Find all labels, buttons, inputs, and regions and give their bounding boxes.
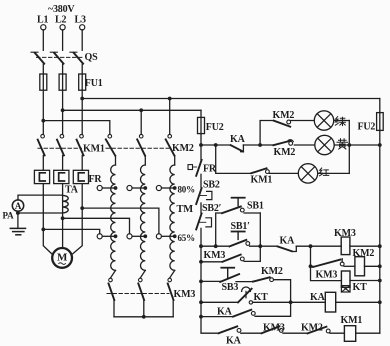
contactor contact KM2 NO green branch (274, 120, 315, 127)
pushbutton SB2 NC contact (196, 188, 212, 213)
label 80% (178, 184, 196, 194)
label KM2 row C (261, 266, 283, 277)
terminal circle L3 (80, 25, 85, 30)
svg-text:~380V: ~380V (48, 4, 75, 15)
label SB3 (222, 282, 239, 293)
svg-text:KM2: KM2 (172, 143, 194, 154)
contactor aux contact KM2 NO row C (253, 277, 291, 302)
node rail row A (199, 244, 203, 248)
node rail row D (199, 300, 203, 304)
wire yellow branch from node (260, 144, 273, 146)
wire phase3 to 65% tap of winding 3 (82, 208, 159, 234)
svg-text:A: A (15, 201, 22, 211)
label KA row A (280, 235, 296, 246)
node right rail KT (378, 279, 382, 283)
label SB2' (202, 203, 222, 214)
svg-text:KM2: KM2 (274, 147, 296, 158)
svg-text:FU1: FU1 (85, 78, 103, 89)
svg-text:SB2: SB2 (203, 180, 220, 191)
fuse FU2 left (198, 117, 205, 133)
relay contact KA lamp row (231, 145, 244, 152)
svg-text:FR: FR (89, 174, 103, 185)
svg-text:M: M (57, 252, 68, 264)
node row A SB1 rejoin (258, 244, 262, 248)
wire L1 QS to node (through FU1) (42, 64, 44, 134)
node L2 rail junction (61, 108, 65, 112)
wire yellow lamp to right rail (334, 144, 380, 146)
contactor KM1 main contact pole 3 (77, 134, 84, 170)
pushbutton SB2' NC contact (196, 214, 211, 247)
node right rail KA coil (378, 300, 382, 304)
svg-text:KA: KA (230, 134, 246, 145)
node L3 rail junction (80, 97, 84, 101)
KM1 linkage dashed line (38, 147, 82, 149)
wire motor phase 1 below FR (43, 184, 51, 254)
wire motor phase 2 below FR (62, 184, 64, 248)
ground symbol (10, 228, 25, 234)
disconnect switch QS pole 3 (70, 52, 83, 63)
wire L1 terminal to QS (42, 30, 44, 50)
65% tap terminal winding 2 (127, 234, 147, 239)
label KT contact (254, 292, 269, 303)
label SB2 (203, 180, 220, 191)
disconnect switch QS pole 1 (31, 52, 44, 63)
wire right rail (379, 99, 381, 334)
relay contact KA NO row E self-hold (233, 302, 291, 316)
label KT coil (353, 282, 368, 293)
contactor KM3 star contact pole 2 (138, 278, 144, 317)
svg-text:KA: KA (226, 335, 242, 346)
label FR contact (203, 163, 217, 174)
label KM3 row F (263, 322, 285, 333)
node rail row B (199, 260, 203, 264)
node L1 rail junction (41, 119, 45, 123)
node SB1 branch left (214, 244, 218, 248)
svg-text:L1: L1 (37, 15, 48, 26)
label KM1 coil (341, 315, 363, 326)
coil KT time relay (341, 271, 350, 292)
svg-text:KT: KT (254, 292, 269, 303)
wire row B rail to KM3 contact (201, 261, 223, 263)
wire KM2 pole3 drop (169, 99, 171, 135)
label PA (3, 210, 15, 220)
label KM1 red branch (251, 174, 273, 185)
node phase2 tap junction (61, 216, 65, 220)
wire L3 terminal to QS (81, 30, 83, 50)
label lamp green (Chinese lv) (335, 117, 345, 126)
65% tap terminal winding 1 (97, 234, 117, 239)
80% tap terminal winding 1 (97, 185, 117, 190)
label KM3 NC (316, 269, 338, 280)
KM3 linkage dashed line (107, 293, 169, 295)
wire row A rail to SB1' (201, 245, 230, 247)
node phase1 tap junction (41, 228, 45, 232)
contactor KM2 main contact pole 1 (106, 134, 116, 165)
SB1 actuator (232, 198, 245, 206)
label KM2 green branch (273, 110, 295, 121)
label lamp yellow (Chinese huang) (337, 139, 348, 149)
svg-text:L2: L2 (55, 15, 66, 26)
label FU2 right (358, 122, 376, 133)
relay contact KA row A (278, 246, 297, 251)
wire SB1 branch riser (216, 213, 222, 246)
node KM2 pole3 branch junction (168, 97, 172, 101)
svg-text:KM2: KM2 (273, 110, 295, 121)
label TM (177, 204, 194, 215)
wire KM2 coil to right rail (365, 265, 380, 267)
wire red lamp to lamp bus (318, 172, 350, 174)
wire control rail lower section (201, 246, 219, 333)
node lamp branches (258, 143, 262, 147)
svg-text:KT: KT (353, 282, 368, 293)
disconnect switch QS pole 2 (50, 52, 63, 63)
node right rail lamp row (378, 143, 382, 147)
terminal L2 label (55, 15, 66, 26)
node rail row C (199, 280, 203, 284)
svg-text:KM2: KM2 (353, 248, 375, 259)
svg-text:SB1: SB1 (247, 200, 264, 211)
label KM2 yellow branch (274, 147, 296, 158)
contactor KM3 star contact pole 1 (109, 278, 115, 317)
thermal relay FR heater pole 3 (73, 170, 88, 183)
node right rail KM2 coil (378, 264, 382, 268)
svg-text:L3: L3 (75, 15, 86, 26)
svg-text:SB2′: SB2′ (202, 203, 222, 214)
label KM3 coil (334, 228, 356, 239)
fuse FU1 pole 3 (79, 74, 86, 90)
autotransformer TM winding 3 (170, 165, 175, 278)
node X KM3 NC tap (309, 264, 313, 268)
coil KM3 (341, 237, 350, 255)
contactor KM2 main contact pole 2 (137, 134, 145, 165)
KM2 linkage dashed line (106, 147, 169, 149)
label KM1 main (83, 143, 105, 154)
label KA lamp row (230, 134, 246, 145)
wire L3 QS to node (through FU1) (81, 64, 83, 134)
wire row D rail to KT contact (201, 301, 238, 303)
wire KA to KM3 coil (296, 245, 341, 247)
autotransformer TM winding 1 (111, 165, 116, 278)
thermal relay FR NC contact (188, 160, 202, 188)
label 65% (178, 233, 196, 243)
label FR heaters (89, 174, 103, 185)
wire green branch riser (260, 121, 274, 146)
label KM2 coil (353, 248, 375, 259)
wire KM3 coil to right rail (350, 245, 380, 247)
svg-text:SB1′: SB1′ (231, 221, 251, 232)
contactor aux contact KM3 NO row F (262, 326, 308, 333)
svg-text:KM1: KM1 (251, 174, 273, 185)
relay contact KA NO row F (219, 326, 262, 333)
wire phase2 to 65% tap of winding 2 (63, 218, 130, 234)
label KA row F (226, 335, 242, 346)
wire phase1 to 65% tap of winding 1 (43, 229, 99, 233)
indicator lamp yellow (315, 135, 334, 154)
wire TA secondary top to ammeter (18, 195, 63, 200)
node KM2 pole2 branch junction (139, 108, 143, 112)
fuse FU2 right (377, 113, 384, 131)
label TA (65, 185, 79, 196)
wire red branch drop (216, 145, 252, 173)
wire rail from L2 to control fuse FU2 (63, 109, 201, 111)
label KA row E (217, 306, 233, 317)
label lamp red (Chinese hong) (320, 168, 329, 176)
node rail row E (199, 315, 203, 319)
current transformer TA winding (63, 195, 69, 212)
contactor aux contact KM3 NC interlock (311, 259, 355, 267)
coil KA (325, 292, 335, 312)
65% tap terminal winding 3 (156, 234, 176, 239)
terminal circle L2 (60, 25, 65, 30)
wire TA secondary bottom to ammeter (18, 212, 63, 214)
80% tap terminal winding 2 (127, 185, 147, 190)
node right rail KM3 coil (378, 244, 382, 248)
thermal relay FR heater pole 2 (54, 170, 69, 183)
svg-text:TA: TA (65, 185, 79, 196)
wire motor phase 3 below FR (73, 184, 82, 254)
contactor contact KM2 NC yellow branch (273, 140, 314, 146)
wire row E rail to KA contact (201, 316, 233, 318)
contactor contact KM1 NO red branch (251, 168, 298, 173)
time relay contact KT delayed NO (238, 287, 325, 304)
svg-text:KM3: KM3 (263, 322, 285, 333)
wire L2 terminal to QS (62, 30, 64, 50)
contactor aux contact KM3 NO row B (223, 246, 261, 262)
node lamp bus tee (347, 143, 351, 147)
wire lamp bus vertical (348, 121, 350, 174)
wire ammeter to ground (17, 211, 19, 228)
svg-text:KM1: KM1 (341, 315, 363, 326)
svg-text:KM2: KM2 (261, 266, 283, 277)
terminal L1 label (37, 15, 48, 26)
wire rail from L1 to KM2 pole1 (43, 121, 110, 135)
label SB1' (231, 221, 251, 232)
svg-text:KM3: KM3 (204, 250, 226, 261)
terminal circle L1 (41, 25, 46, 30)
contactor KM2 main contact pole 3 (166, 134, 175, 165)
svg-text:KM3: KM3 (174, 289, 196, 300)
wire star point bus (114, 316, 173, 318)
label KM2 main (172, 143, 194, 154)
svg-text:FU2: FU2 (358, 122, 376, 133)
pushbutton SB1' NO contact on row A (230, 240, 278, 247)
wire KA coil to right rail (336, 301, 380, 303)
wire lamp row from rail to KA (201, 144, 231, 146)
wire L2 QS to node (through FU1) (62, 64, 64, 134)
label QS (85, 52, 99, 63)
indicator lamp red (298, 164, 317, 183)
label KA coil (310, 292, 326, 303)
node phase3 tap junction (80, 206, 84, 210)
QS linkage dashed line (37, 56, 83, 58)
svg-text:TM: TM (177, 204, 194, 215)
contactor KM1 main contact pole 1 (38, 134, 45, 170)
wire L2 rail drop to FU2 (200, 110, 202, 145)
svg-text:FR: FR (203, 163, 217, 174)
label KM2 row F (301, 322, 323, 333)
pushbutton SB1 NO contact (222, 207, 260, 214)
wire node X vertical (311, 246, 342, 280)
svg-text:KA: KA (310, 292, 326, 303)
svg-text:KM3: KM3 (334, 228, 356, 239)
svg-text:KA: KA (217, 306, 233, 317)
svg-text:KM2: KM2 (301, 322, 323, 333)
motor M (52, 248, 72, 268)
coil KM2 (355, 257, 365, 276)
svg-text:FU2: FU2 (206, 122, 224, 133)
node ammeter ground junction (16, 211, 20, 215)
label FU2 left (206, 122, 224, 133)
coil KM1 (344, 326, 355, 342)
svg-text:65%: 65% (178, 233, 196, 243)
wire SB1 branch drop (259, 213, 261, 246)
svg-text:80%: 80% (178, 184, 196, 194)
svg-text:SB3: SB3 (222, 282, 239, 293)
fuse FU1 pole 2 (59, 74, 66, 90)
indicator lamp green (314, 111, 333, 130)
SB1' actuator (232, 232, 245, 240)
svg-text:KA: KA (280, 235, 296, 246)
svg-text:QS: QS (85, 52, 99, 63)
node X top (309, 244, 313, 248)
pushbutton SB3 NO contact (220, 274, 253, 282)
label KM3 row B (204, 250, 226, 261)
wire KM1 coil to right rail (356, 332, 380, 334)
wire rail from L3 to right side top (82, 98, 380, 100)
svg-text:PA: PA (3, 210, 15, 220)
wire row C rail to SB3 (201, 280, 220, 282)
label ~380V (48, 4, 75, 15)
wire KM2 pole2 drop (140, 110, 142, 134)
svg-text:KM3: KM3 (316, 269, 338, 280)
ammeter PA (12, 200, 23, 211)
fuse FU1 pole 1 (40, 74, 47, 90)
wire KA to lamp node (243, 144, 260, 146)
terminal L3 label (75, 15, 86, 26)
contactor KM3 star contact pole 3 (168, 278, 174, 317)
label KM3 main (174, 289, 196, 300)
svg-text:KM1: KM1 (83, 143, 105, 154)
contactor KM1 main contact pole 2 (57, 134, 64, 170)
node star point (142, 315, 146, 319)
wire KT coil to right rail (350, 280, 380, 282)
node row D junction (289, 300, 293, 304)
label SB1 (247, 200, 264, 211)
thermal relay FR heater pole 1 (34, 170, 49, 183)
SB3 actuator (221, 268, 234, 279)
node red branch junction (214, 143, 218, 147)
contactor aux contact KM2 NO row F (308, 327, 345, 334)
autotransformer TM winding 2 (140, 165, 145, 278)
wire green lamp to right bus (334, 120, 350, 122)
80% tap terminal winding 3 (156, 185, 176, 190)
label FU1 (85, 78, 103, 89)
wire control rail FU2 to FR (200, 145, 202, 160)
node control rail top (199, 143, 203, 147)
